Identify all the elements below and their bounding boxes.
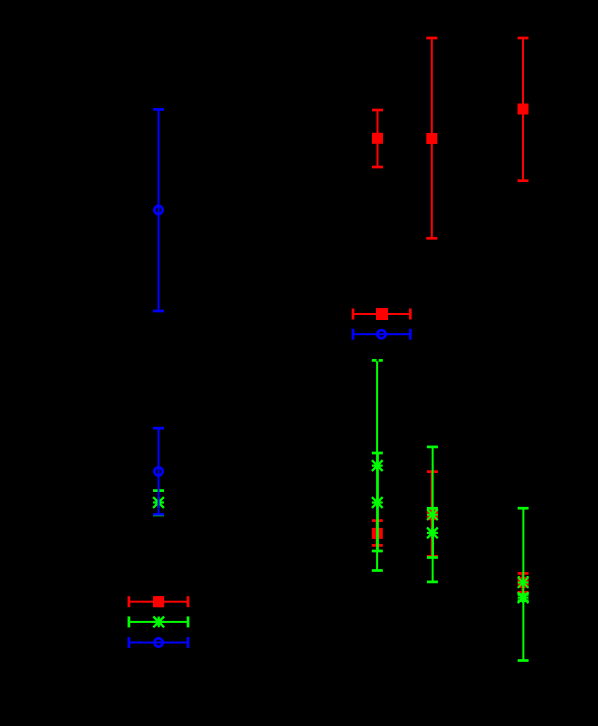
green errorbar GB1 (x=377.3) xyxy=(372,452,383,553)
blue errorbar B2 (x=158.5) xyxy=(153,427,164,516)
red errorbar R1 (x=377.5) xyxy=(372,109,383,169)
green horizontal errorbar GA4 (y=621.9) xyxy=(128,616,190,627)
red errorbar R6 (x=432.4) xyxy=(427,470,438,558)
green errorbar GB2 (x=158.5) xyxy=(153,489,164,516)
red errorbar R3 (x=523) xyxy=(518,37,529,182)
red errorbar R5 (x=377.3) xyxy=(372,519,383,547)
red errorbar R7 (x=523.1) xyxy=(518,572,529,594)
blue errorbar B1 (x=158.5) xyxy=(153,108,164,312)
red horizontal errorbar R8 (y=601.7) xyxy=(128,596,190,607)
red errorbar R2 (x=431.8) xyxy=(426,37,437,240)
green errorbar GB3 (x=432.4) xyxy=(427,507,438,559)
green errorbar GA3 (x=523.1, tall) xyxy=(518,507,529,662)
green cap tabs under red square, column x=523 xyxy=(518,576,529,578)
blue horizontal errorbar B3 (y=334.2) xyxy=(352,329,412,340)
green errorbar GB4 (x=523.1, short) xyxy=(518,592,529,603)
blue horizontal errorbar B4 (y=642.5) xyxy=(128,637,190,648)
red horizontal errorbar R4 (y=314) xyxy=(352,308,412,320)
green errorbar GA1 (x=377.3, tall) xyxy=(372,359,383,572)
green errorbar GA2 (x=432.4, tall) xyxy=(427,446,438,584)
